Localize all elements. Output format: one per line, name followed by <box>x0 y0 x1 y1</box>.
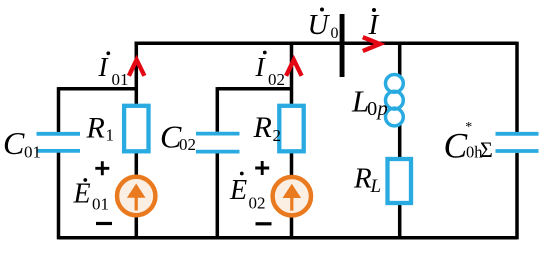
svg-text:C: C <box>444 126 468 166</box>
svg-text:02: 02 <box>268 70 285 89</box>
label I02 <box>255 51 286 89</box>
svg-text:02: 02 <box>179 135 196 154</box>
svg-text:01: 01 <box>24 143 41 162</box>
capacitor C0h-sigma <box>496 134 539 151</box>
label RL <box>353 162 381 197</box>
inductor L0p coil <box>386 75 404 126</box>
node U0 separator bar <box>340 14 345 77</box>
current arrow I (red chevron right) <box>363 37 380 51</box>
wire C02 vertical lower <box>216 153 220 239</box>
svg-text:0: 0 <box>367 98 377 120</box>
wire left vertical lower <box>57 153 61 240</box>
label U0 <box>308 8 339 42</box>
label L0p <box>351 83 388 120</box>
wire branch E01/R1 vertical <box>135 43 139 238</box>
label R2 <box>253 111 282 145</box>
source E01 arrow <box>127 184 146 211</box>
source E02 arrow <box>283 184 302 211</box>
current arrow I02 (red chevron) <box>286 60 302 76</box>
wire top-left horizontal <box>59 87 137 91</box>
svg-text:2: 2 <box>273 126 282 145</box>
svg-text:C: C <box>3 125 25 161</box>
svg-text:R: R <box>253 111 272 144</box>
wire top bus <box>135 42 518 46</box>
svg-text:01: 01 <box>112 70 129 89</box>
svg-text:U: U <box>308 9 331 41</box>
label E01 plus <box>95 161 109 175</box>
label R1 <box>86 111 115 144</box>
label E01 minus <box>96 222 112 225</box>
svg-text:Σ: Σ <box>480 137 493 162</box>
label I01 <box>98 51 129 89</box>
wire branch E02/R2 vertical <box>290 43 294 238</box>
svg-text:*: * <box>465 120 472 135</box>
svg-text:02: 02 <box>249 194 266 213</box>
label C02 <box>160 118 196 154</box>
wire C02 vertical upper <box>216 87 220 132</box>
resistor RL <box>388 159 412 203</box>
label C01 <box>3 125 41 162</box>
resistor R1 <box>124 106 148 152</box>
label I (top) <box>368 8 380 41</box>
wire right vertical upper <box>515 42 519 132</box>
capacitor C01 <box>37 134 81 151</box>
wire bottom bus <box>59 236 518 240</box>
source E02 circle <box>273 177 311 215</box>
svg-text:1: 1 <box>106 126 115 145</box>
svg-text:I: I <box>368 9 380 41</box>
wire left vertical upper <box>57 87 61 132</box>
svg-text:R: R <box>353 162 372 194</box>
wire mid horizontal <box>217 87 291 91</box>
current arrow I01 (red chevron) <box>129 60 145 76</box>
svg-text:p: p <box>376 98 388 120</box>
svg-text:L: L <box>370 176 382 197</box>
source E01 circle <box>117 177 155 215</box>
svg-text:0: 0 <box>331 25 339 42</box>
capacitor C02 <box>196 134 240 152</box>
label E02 minus <box>256 222 272 225</box>
svg-text:E: E <box>73 179 91 210</box>
label E02 plus <box>255 161 269 175</box>
wire L branch upper <box>398 43 402 76</box>
resistor R2 <box>279 106 303 152</box>
label E02 <box>229 172 266 213</box>
svg-text:E: E <box>229 175 247 206</box>
wire right vertical lower <box>515 153 519 240</box>
svg-text:R: R <box>86 111 105 144</box>
label E01 <box>73 178 110 214</box>
wire L branch lower <box>398 125 402 239</box>
label C0h-sigma <box>444 120 493 166</box>
svg-text:01: 01 <box>92 195 109 214</box>
